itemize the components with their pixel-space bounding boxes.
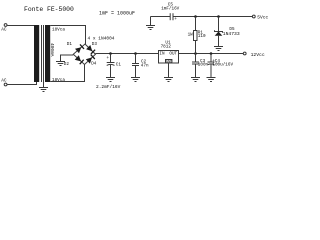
ground C1 (106, 78, 115, 82)
svg-text:1mF = 1000uF: 1mF = 1000uF (99, 11, 135, 17)
terminal 5Vcc (252, 14, 268, 20)
svg-text:GND: GND (166, 61, 172, 65)
ground C5 (146, 26, 155, 30)
diode D2 (64, 55, 84, 67)
capacitor C3 (192, 54, 209, 78)
svg-text:D4: D4 (91, 61, 97, 66)
resistor R1 (188, 17, 206, 54)
svg-text:AC: AC (1, 78, 7, 83)
node R1 top junction (194, 15, 197, 18)
ground bridge negative (56, 62, 65, 66)
svg-text:OUT: OUT (169, 52, 177, 57)
node C4 junction (210, 52, 213, 55)
ground D5 (214, 47, 223, 51)
diode D3 (86, 42, 97, 54)
svg-text:110: 110 (198, 34, 206, 39)
wire AC2 to primary (7, 82, 36, 85)
diode D4 (86, 55, 97, 67)
node D5 top junction (217, 15, 220, 18)
svg-text:Fonte FE-5000: Fonte FE-5000 (24, 6, 74, 13)
terminal 12Vcc (243, 52, 265, 58)
transformer T1 primary winding (34, 25, 39, 82)
svg-text:+: + (174, 17, 177, 22)
svg-text:C1: C1 (116, 62, 122, 67)
wire secondary bottom to bridge (50, 65, 84, 82)
node C1 junction (109, 52, 112, 55)
svg-text:1W: 1W (188, 32, 194, 37)
bridge diamond (73, 44, 95, 65)
ground C4 (207, 78, 216, 82)
svg-text:400mA: 400mA (49, 43, 55, 57)
wire C5 to ground (150, 17, 152, 26)
op-amp U1 7812 regulator (159, 41, 179, 65)
ground C2 (131, 78, 140, 82)
svg-text:+: + (106, 56, 109, 61)
svg-text:1N4733: 1N4733 (223, 31, 240, 37)
ground C3 (191, 78, 200, 82)
svg-text:2.2mF/16V: 2.2mF/16V (96, 84, 121, 90)
wire secondary top to bridge (50, 26, 85, 45)
svg-text:5Vcc: 5Vcc (257, 14, 268, 20)
svg-text:47n: 47n (141, 63, 149, 68)
zener diode D5 (215, 17, 240, 47)
svg-text:12Vcc: 12Vcc (251, 52, 265, 58)
svg-text:100n: 100n (198, 62, 209, 67)
capacitor C4 (208, 54, 234, 78)
svg-text:18Vca: 18Vca (52, 78, 65, 83)
transformer core (42, 25, 44, 82)
node R1 rail junction (194, 52, 197, 55)
transformer T1 secondary winding (45, 25, 50, 82)
svg-text:AC: AC (1, 28, 7, 33)
capacitor C1 (106, 54, 121, 78)
diode D1 (67, 42, 84, 53)
svg-text:IN: IN (159, 52, 165, 57)
capacitor C5 (161, 3, 179, 23)
svg-text:7812: 7812 (161, 45, 172, 50)
wire DC rail (96, 53, 159, 55)
svg-text:18Vca: 18Vca (52, 27, 65, 32)
wire OUT rail (179, 53, 244, 55)
svg-text:100u/16V: 100u/16V (212, 62, 233, 67)
terminal AC1 (1, 24, 7, 33)
capacitor C2 (132, 54, 149, 78)
svg-text:4 x 1N4004: 4 x 1N4004 (88, 36, 115, 42)
svg-text:1mF/16V: 1mF/16V (161, 6, 179, 11)
wire bridge negative to ground (61, 55, 74, 62)
ground regulator (164, 78, 173, 82)
svg-text:D1: D1 (67, 42, 73, 47)
wire 5V rail (151, 16, 171, 18)
wire core to ground (43, 82, 45, 88)
ground transformer core (39, 88, 48, 92)
wire regulator GND to ground (168, 63, 170, 78)
node C2 junction (134, 52, 137, 55)
svg-text:D3: D3 (92, 42, 98, 47)
wire AC1 to primary (7, 25, 36, 27)
svg-text:D2: D2 (64, 62, 70, 67)
terminal AC2 (1, 78, 7, 86)
